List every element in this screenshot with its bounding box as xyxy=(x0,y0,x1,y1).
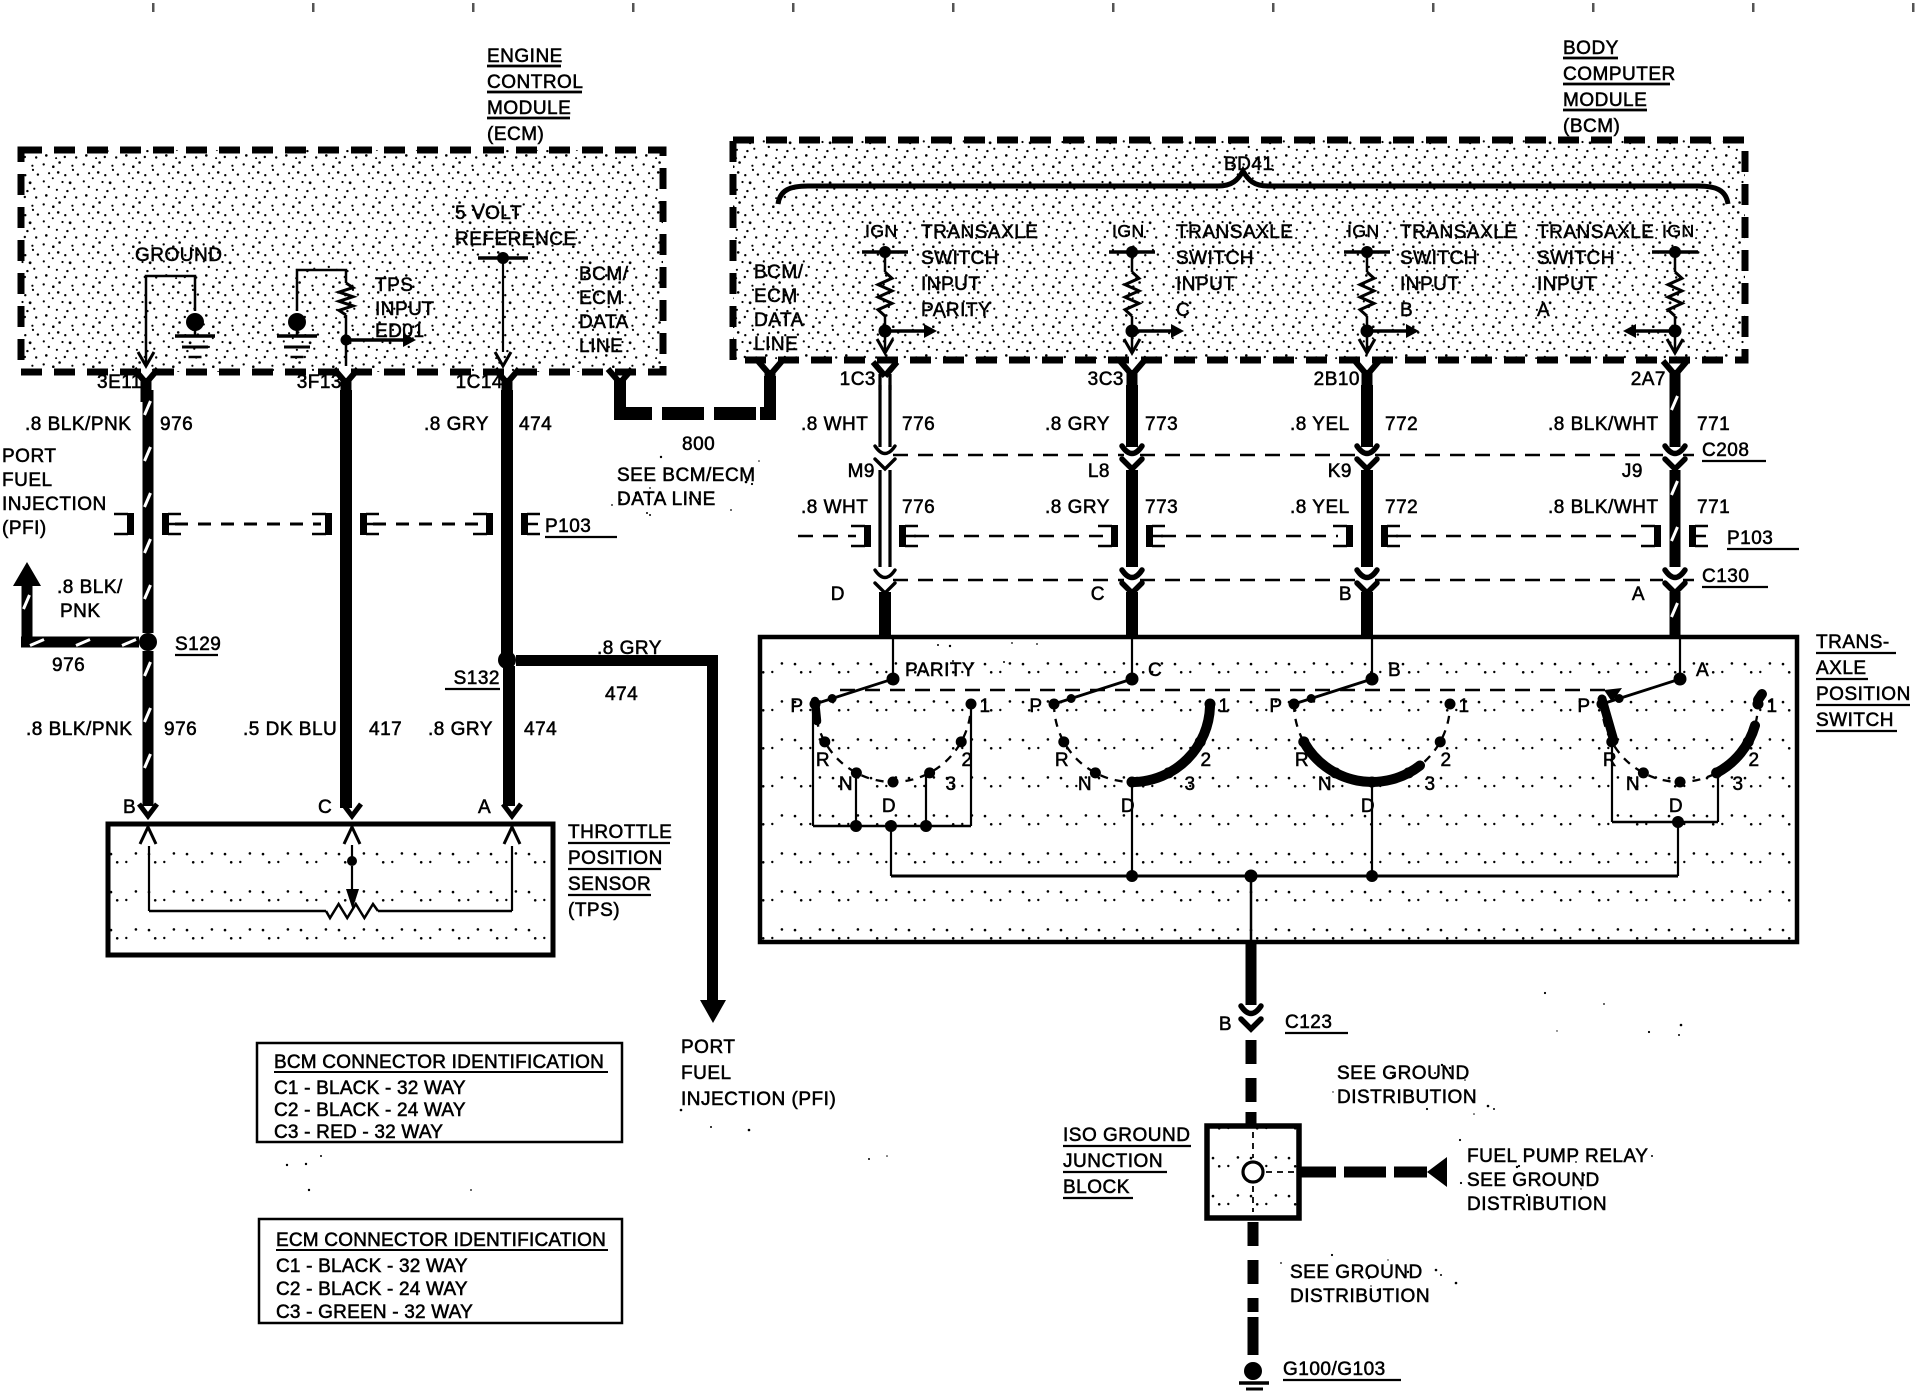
wire .8 GRY 773 upper xyxy=(1045,385,1178,447)
svg-text:K9: K9 xyxy=(1328,461,1352,482)
splice S129 xyxy=(139,633,221,655)
TPS potentiometer xyxy=(149,845,512,918)
svg-text:R: R xyxy=(1603,750,1617,771)
svg-text:976: 976 xyxy=(164,719,197,740)
svg-text:1C14: 1C14 xyxy=(456,372,503,393)
throttle position sensor TPS box xyxy=(108,824,553,955)
wire .8 WHT 776 upper xyxy=(801,385,935,447)
svg-text:C: C xyxy=(1091,584,1105,605)
wire .8 BLK/WHT 771 upper xyxy=(1548,385,1730,447)
svg-text:SWITCH: SWITCH xyxy=(1537,248,1615,269)
svg-text:TPS: TPS xyxy=(375,275,413,296)
svg-text:M9: M9 xyxy=(848,461,875,482)
svg-text:771: 771 xyxy=(1697,414,1730,435)
svg-text:MODULE: MODULE xyxy=(487,98,571,119)
svg-text:P: P xyxy=(790,696,803,717)
wire 3E11 .8 BLK/PNK 976 lower xyxy=(26,651,197,806)
BCM connector identification table xyxy=(257,1043,622,1143)
svg-text:MODULE: MODULE xyxy=(1563,90,1647,111)
svg-text:A: A xyxy=(478,797,491,818)
svg-text:GROUND: GROUND xyxy=(135,245,222,266)
switch PARITY closed contact xyxy=(815,701,817,721)
switch common dashed line xyxy=(840,689,1608,692)
ground G100/G103 xyxy=(1239,1359,1401,1389)
svg-text:JUNCTION: JUNCTION xyxy=(1063,1151,1163,1172)
svg-text:FUEL: FUEL xyxy=(681,1063,732,1084)
wire 1C14 .8 GRY 474 lower xyxy=(428,666,557,806)
svg-text:J9: J9 xyxy=(1622,461,1643,482)
pin 2B10 xyxy=(1314,361,1379,394)
label TRANSAXLE SWITCH INPUT B xyxy=(1400,222,1517,321)
svg-text:PNK: PNK xyxy=(60,601,101,622)
svg-text:.8 GRY: .8 GRY xyxy=(1045,414,1110,435)
wire 771 into switch xyxy=(1670,592,1681,639)
svg-text:C1 - BLACK - 32 WAY: C1 - BLACK - 32 WAY xyxy=(276,1256,468,1277)
svg-text:N: N xyxy=(1626,774,1640,795)
svg-text:TRANSAXLE: TRANSAXLE xyxy=(921,222,1038,243)
svg-text:N: N xyxy=(839,774,853,795)
wire switch output B xyxy=(1246,941,1257,1005)
rotary switch section C xyxy=(1029,639,1229,817)
pin 3E11 xyxy=(97,369,158,402)
scan noise xyxy=(286,456,1683,1293)
switch A wiper arrowhead xyxy=(1604,688,1622,702)
label PORT FUEL INJECTION (PFI) xyxy=(2,446,107,539)
connector row C208 dashed line xyxy=(893,440,1766,461)
svg-text:P103: P103 xyxy=(545,516,591,537)
svg-text:INJECTION: INJECTION xyxy=(2,494,107,515)
svg-text:.5 DK BLU: .5 DK BLU xyxy=(243,719,337,740)
svg-text:(BCM): (BCM) xyxy=(1563,116,1620,137)
connector P103 terminal at 773 xyxy=(1111,525,1118,547)
connector C130 terminal C xyxy=(1091,570,1142,605)
connector row P103 right dashed line xyxy=(798,528,1799,549)
5 volt reference node xyxy=(455,203,577,366)
svg-text:771: 771 xyxy=(1697,497,1730,518)
svg-text:.8 BLK/WHT: .8 BLK/WHT xyxy=(1548,414,1659,435)
svg-text:BCM CONNECTOR IDENTIFICATION: BCM CONNECTOR IDENTIFICATION xyxy=(274,1052,604,1073)
label PORT FUEL INJECTION (PFI) bottom xyxy=(681,1037,836,1110)
svg-text:3: 3 xyxy=(1184,774,1195,795)
svg-text:C123: C123 xyxy=(1285,1012,1332,1033)
svg-text:N: N xyxy=(1318,774,1332,795)
svg-text:B: B xyxy=(1400,300,1413,321)
svg-text:N: N xyxy=(1078,774,1092,795)
wire 3F13 .5 DK BLU 417 xyxy=(243,390,402,808)
svg-text:L8: L8 xyxy=(1088,461,1110,482)
ground symbol G-ECM2 and TPS input resistor xyxy=(277,270,435,366)
svg-text:ECM: ECM xyxy=(579,288,623,309)
svg-text:1: 1 xyxy=(1766,696,1777,717)
svg-text:PORT: PORT xyxy=(2,446,56,467)
svg-text:P: P xyxy=(1269,696,1282,717)
svg-text:PARITY: PARITY xyxy=(921,300,991,321)
wire junction block to ground xyxy=(1248,1222,1259,1355)
svg-text:IGN: IGN xyxy=(1112,221,1145,241)
switch B contact wiring xyxy=(1371,782,1373,876)
label TRANSAXLE SWITCH INPUT PARITY xyxy=(921,222,1038,321)
svg-text:R: R xyxy=(816,750,830,771)
label SEE GROUND DISTRIBUTION lower xyxy=(1290,1262,1430,1307)
pin ECM data line xyxy=(608,369,620,383)
svg-text:1: 1 xyxy=(1458,696,1469,717)
svg-text:REFERENCE: REFERENCE xyxy=(455,229,577,250)
svg-text:(ECM): (ECM) xyxy=(487,124,544,145)
svg-text:SWITCH: SWITCH xyxy=(921,248,999,269)
svg-text:2: 2 xyxy=(1440,750,1451,771)
connector P103 terminal at 776 xyxy=(864,525,871,547)
svg-text:BLOCK: BLOCK xyxy=(1063,1177,1130,1198)
svg-text:LINE: LINE xyxy=(579,336,623,357)
rotary switch section A xyxy=(1577,639,1777,817)
svg-text:BODY: BODY xyxy=(1563,38,1619,59)
connector C130 terminal B xyxy=(1339,570,1377,605)
connector C130 terminal D xyxy=(831,570,895,605)
svg-text:SEE GROUND: SEE GROUND xyxy=(1290,1262,1423,1283)
svg-text:474: 474 xyxy=(524,719,557,740)
wire .8 BLK/WHT 771 lower xyxy=(1548,470,1730,567)
resistor IGN pull-up B xyxy=(1344,221,1419,353)
connector row C130 dashed line xyxy=(893,566,1768,587)
svg-text:A: A xyxy=(1632,584,1645,605)
switch PARITY contact wiring xyxy=(813,706,971,876)
label SEE BCM/ECM DATA LINE xyxy=(617,465,756,510)
wire 3E11 .8 BLK/PNK 976 upper xyxy=(25,390,193,633)
svg-text:R: R xyxy=(1055,750,1069,771)
svg-text:SWITCH: SWITCH xyxy=(1816,710,1894,731)
svg-text:C3 - RED - 32 WAY: C3 - RED - 32 WAY xyxy=(274,1122,443,1143)
label BODY COMPUTER MODULE (BCM) xyxy=(1563,38,1676,137)
svg-text:776: 776 xyxy=(902,497,935,518)
svg-text:THROTTLE: THROTTLE xyxy=(568,822,672,843)
svg-text:C: C xyxy=(1148,660,1162,681)
svg-text:INPUT: INPUT xyxy=(1400,274,1460,295)
svg-text:G100/G103: G100/G103 xyxy=(1283,1359,1386,1380)
svg-text:.8 GRY: .8 GRY xyxy=(424,414,489,435)
splice S132 xyxy=(445,651,516,689)
svg-text:S132: S132 xyxy=(454,668,500,689)
wire 776 into switch xyxy=(879,592,891,639)
connector J9 xyxy=(1622,446,1685,482)
svg-text:B: B xyxy=(1219,1014,1232,1035)
switch common rail xyxy=(891,870,1678,941)
label THROTTLE POSITION SENSOR (TPS) xyxy=(568,822,672,921)
svg-text:3C3: 3C3 xyxy=(1088,369,1124,390)
svg-text:C2 - BLACK - 24 WAY: C2 - BLACK - 24 WAY xyxy=(276,1279,468,1300)
rotary switch section B xyxy=(1269,639,1469,817)
svg-text:.8 GRY: .8 GRY xyxy=(597,638,662,659)
label BCM/ECM DATA LINE (BCM side) xyxy=(754,262,804,355)
TPS pin C xyxy=(318,797,361,844)
connector P103 left row xyxy=(114,513,617,537)
svg-text:1: 1 xyxy=(979,696,990,717)
svg-text:TRANSAXLE: TRANSAXLE xyxy=(1400,222,1517,243)
svg-text:DATA: DATA xyxy=(579,312,629,333)
svg-text:2: 2 xyxy=(1200,750,1211,771)
wire 773 into switch xyxy=(1126,592,1138,639)
svg-text:D: D xyxy=(882,796,896,817)
svg-text:.8 YEL: .8 YEL xyxy=(1290,497,1350,518)
wire PFI branch .8 BLK/PNK 976 xyxy=(13,562,139,676)
svg-text:PORT: PORT xyxy=(681,1037,735,1058)
svg-text:2B10: 2B10 xyxy=(1314,369,1360,390)
label SEE GROUND DISTRIBUTION upper xyxy=(1337,1063,1477,1108)
svg-text:A: A xyxy=(1537,300,1550,321)
svg-text:C1 - BLACK - 32 WAY: C1 - BLACK - 32 WAY xyxy=(274,1078,466,1099)
svg-text:C: C xyxy=(1176,300,1190,321)
connector C123 xyxy=(1219,1006,1348,1035)
svg-text:800: 800 xyxy=(682,434,715,455)
wire 772 into switch xyxy=(1361,592,1373,639)
svg-text:1: 1 xyxy=(1218,696,1229,717)
svg-text:DATA LINE: DATA LINE xyxy=(617,489,716,510)
label ENGINE CONTROL MODULE (ECM) xyxy=(487,46,583,145)
svg-text:.8 BLK/PNK: .8 BLK/PNK xyxy=(25,414,131,435)
TPS pin B xyxy=(123,797,157,844)
svg-text:DISTRIBUTION: DISTRIBUTION xyxy=(1337,1087,1477,1108)
svg-text:P: P xyxy=(1029,696,1042,717)
svg-text:FUEL: FUEL xyxy=(2,470,53,491)
svg-text:DISTRIBUTION: DISTRIBUTION xyxy=(1290,1286,1430,1307)
svg-text:.8 WHT: .8 WHT xyxy=(801,497,868,518)
svg-text:SWITCH: SWITCH xyxy=(1176,248,1254,269)
svg-text:BD41: BD41 xyxy=(1224,154,1274,175)
rotary switch section PARITY xyxy=(790,639,990,817)
ECM connector identification table xyxy=(259,1219,622,1323)
wire .8 GRY 474 to PFI xyxy=(516,638,726,1023)
svg-text:POSITION: POSITION xyxy=(1816,684,1911,705)
svg-text:B: B xyxy=(1339,584,1352,605)
svg-text:P: P xyxy=(1577,696,1590,717)
svg-text:C130: C130 xyxy=(1702,566,1749,587)
svg-text:3: 3 xyxy=(1732,774,1743,795)
svg-text:INPUT: INPUT xyxy=(1537,274,1597,295)
svg-text:3E11: 3E11 xyxy=(97,372,142,393)
svg-text:976: 976 xyxy=(160,414,193,435)
svg-text:B: B xyxy=(1388,660,1401,681)
ECM module box xyxy=(21,150,663,372)
svg-text:DISTRIBUTION: DISTRIBUTION xyxy=(1467,1194,1607,1215)
svg-text:C: C xyxy=(318,797,332,818)
svg-text:IGN: IGN xyxy=(1662,221,1695,241)
pin 3F13 xyxy=(297,369,358,402)
svg-text:C208: C208 xyxy=(1702,440,1749,461)
wire 1C14 .8 GRY 474 upper xyxy=(424,390,552,654)
label TRANS-AXLE POSITION SWITCH xyxy=(1816,632,1911,731)
connector P103 terminal at 772 xyxy=(1346,525,1353,547)
svg-text:IGN: IGN xyxy=(865,221,898,241)
svg-text:2: 2 xyxy=(1748,750,1759,771)
wire .8 GRY 773 lower xyxy=(1045,470,1178,567)
svg-text:D: D xyxy=(1669,796,1683,817)
svg-text:.8 BLK/: .8 BLK/ xyxy=(57,577,123,598)
pin 3C3 xyxy=(1088,361,1144,394)
pin BCM data line xyxy=(758,361,770,375)
svg-text:772: 772 xyxy=(1385,497,1418,518)
label TRANSAXLE SWITCH INPUT C xyxy=(1176,222,1293,321)
svg-text:S129: S129 xyxy=(175,634,221,655)
label BCM/ECM DATA LINE (ECM side) xyxy=(579,264,629,357)
svg-text:CONTROL: CONTROL xyxy=(487,72,583,93)
svg-text:INPUT: INPUT xyxy=(375,299,435,320)
switch A contact wiring xyxy=(1612,745,1718,876)
svg-text:SEE GROUND: SEE GROUND xyxy=(1337,1063,1470,1084)
connector C130 terminal A xyxy=(1632,570,1685,605)
wire .8 YEL 772 upper xyxy=(1290,385,1418,447)
svg-text:3F13: 3F13 xyxy=(297,372,342,393)
connector L8 xyxy=(1088,446,1142,482)
svg-text:DATA: DATA xyxy=(754,310,804,331)
svg-text:SEE BCM/ECM: SEE BCM/ECM xyxy=(617,465,756,486)
svg-text:TRANS-: TRANS- xyxy=(1816,632,1890,653)
svg-text:AXLE: AXLE xyxy=(1816,658,1867,679)
svg-text:.8 BLK/WHT: .8 BLK/WHT xyxy=(1548,497,1659,518)
label FUEL PUMP RELAY SEE GROUND DISTRIBUTION xyxy=(1467,1146,1648,1215)
svg-text:ENGINE: ENGINE xyxy=(487,46,563,67)
connector K9 xyxy=(1328,446,1377,482)
svg-text:INPUT: INPUT xyxy=(1176,274,1236,295)
svg-text:.8 GRY: .8 GRY xyxy=(428,719,493,740)
BCM module box xyxy=(733,140,1745,360)
svg-text:P103: P103 xyxy=(1727,528,1773,549)
transaxle position switch box xyxy=(760,637,1797,942)
svg-text:ISO GROUND: ISO GROUND xyxy=(1063,1125,1190,1146)
svg-text:TRANSAXLE: TRANSAXLE xyxy=(1537,222,1654,243)
svg-text:SENSOR: SENSOR xyxy=(568,874,651,895)
wire C123 to junction block xyxy=(1246,1040,1257,1126)
wire .8 WHT 776 lower xyxy=(801,470,935,567)
resistor IGN pull-up PARITY xyxy=(862,221,937,353)
svg-text:BCM/: BCM/ xyxy=(754,262,804,283)
svg-text:3: 3 xyxy=(945,774,956,795)
svg-text:ECM: ECM xyxy=(754,286,798,307)
switch C contact wiring xyxy=(1131,782,1133,876)
svg-text:LINE: LINE xyxy=(754,334,798,355)
wire ECM ground exit arrow xyxy=(138,352,154,366)
svg-text:COMPUTER: COMPUTER xyxy=(1563,64,1676,85)
svg-text:C3 - GREEN - 32 WAY: C3 - GREEN - 32 WAY xyxy=(276,1302,473,1323)
wire .8 YEL 772 lower xyxy=(1290,470,1418,567)
resistor IGN pull-up C xyxy=(1109,221,1184,353)
wire to fuel pump relay xyxy=(1299,1157,1447,1187)
svg-text:.8 GRY: .8 GRY xyxy=(1045,497,1110,518)
switch B closed contact arc xyxy=(1305,743,1421,782)
svg-text:2A7: 2A7 xyxy=(1631,369,1666,390)
svg-text:772: 772 xyxy=(1385,414,1418,435)
pin 2A7 xyxy=(1631,361,1687,394)
label TRANSAXLE SWITCH INPUT A xyxy=(1537,222,1654,321)
svg-text:773: 773 xyxy=(1145,497,1178,518)
svg-text:INJECTION (PFI): INJECTION (PFI) xyxy=(681,1089,836,1110)
connector P103 terminal at 771 xyxy=(1654,525,1661,547)
svg-text:ED01: ED01 xyxy=(375,321,425,342)
pin 1C3 xyxy=(840,362,897,390)
svg-text:A: A xyxy=(1696,660,1709,681)
svg-text:976: 976 xyxy=(52,655,85,676)
pin 1C14 xyxy=(456,369,519,402)
svg-text:3: 3 xyxy=(1424,774,1435,795)
svg-text:IGN: IGN xyxy=(1347,221,1380,241)
svg-text:1C3: 1C3 xyxy=(840,369,876,390)
BD41 brace xyxy=(778,171,1728,204)
svg-text:PARITY: PARITY xyxy=(905,660,975,681)
ISO ground junction block xyxy=(1207,1126,1299,1218)
svg-text:SEE GROUND: SEE GROUND xyxy=(1467,1170,1600,1191)
svg-text:FUEL PUMP RELAY: FUEL PUMP RELAY xyxy=(1467,1146,1648,1167)
svg-text:.8 YEL: .8 YEL xyxy=(1290,414,1350,435)
switch A closed contacts xyxy=(1602,699,1614,741)
svg-text:474: 474 xyxy=(519,414,552,435)
svg-text:C2 - BLACK - 24 WAY: C2 - BLACK - 24 WAY xyxy=(274,1100,466,1121)
resistor IGN pull-up A xyxy=(1623,221,1698,353)
svg-text:776: 776 xyxy=(902,414,935,435)
svg-text:474: 474 xyxy=(605,684,638,705)
svg-text:.8 WHT: .8 WHT xyxy=(801,414,868,435)
TPS pin A xyxy=(478,797,521,844)
connector M9 xyxy=(848,446,895,482)
wire BCM/ECM data line bus 800 xyxy=(614,376,776,420)
svg-text:D: D xyxy=(831,584,845,605)
switch C closed contact arc xyxy=(1135,707,1210,782)
ground symbol G-ECM1 xyxy=(135,245,222,366)
svg-text:5 VOLT: 5 VOLT xyxy=(455,203,522,224)
svg-text:(TPS): (TPS) xyxy=(568,900,620,921)
label ISO GROUND JUNCTION BLOCK xyxy=(1063,1125,1191,1198)
svg-text:POSITION: POSITION xyxy=(568,848,663,869)
svg-text:B: B xyxy=(123,797,136,818)
svg-text:SWITCH: SWITCH xyxy=(1400,248,1478,269)
svg-text:(PFI): (PFI) xyxy=(2,518,47,539)
svg-text:.8 BLK/PNK: .8 BLK/PNK xyxy=(26,719,132,740)
svg-text:INPUT: INPUT xyxy=(921,274,981,295)
svg-text:BCM/: BCM/ xyxy=(579,264,629,285)
svg-text:417: 417 xyxy=(369,719,402,740)
svg-text:ECM CONNECTOR IDENTIFICATION: ECM CONNECTOR IDENTIFICATION xyxy=(276,1230,606,1251)
svg-text:773: 773 xyxy=(1145,414,1178,435)
svg-text:TRANSAXLE: TRANSAXLE xyxy=(1176,222,1293,243)
